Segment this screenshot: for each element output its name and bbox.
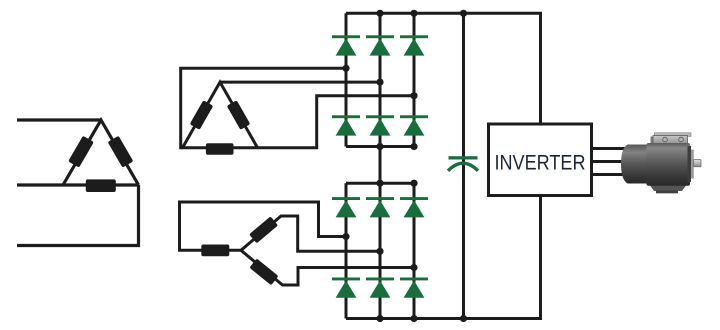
wire inverter to motor phase W xyxy=(592,173,631,176)
winding T2a xyxy=(190,100,214,130)
winding T3b xyxy=(249,216,278,243)
inverter U1 box xyxy=(489,124,592,196)
capacitor C1 flat plate xyxy=(449,156,478,159)
capacitor C1 curved plate xyxy=(448,163,478,171)
wire T2 delta secondary loop to bridge1 legs 1 and 3 xyxy=(181,68,414,147)
motor M1 xyxy=(621,133,701,194)
junction dot bridge1 AC tap leg2 xyxy=(376,79,383,86)
transformer T1 primary delta sides xyxy=(63,120,139,185)
diode D7 xyxy=(332,197,360,217)
diode D5 xyxy=(366,115,394,135)
wire inverter to motor phase U xyxy=(592,147,631,150)
junction dot bridge1 AC tap leg3 xyxy=(410,92,417,99)
diode D11 xyxy=(366,278,394,298)
diode D6 xyxy=(400,115,428,135)
junction dot bridge2 AC tap leg1 xyxy=(342,233,349,240)
capacitor C1 wire xyxy=(462,13,465,318)
bridge2 leg3 wire xyxy=(413,183,416,318)
junction dot bottom bus capacitor xyxy=(460,315,467,322)
bridge2 positive bus xyxy=(346,182,414,185)
diode D4 xyxy=(332,115,360,135)
junction dot bridge1 negative bus leg2 xyxy=(376,143,383,150)
wire series link between bridges xyxy=(379,147,382,184)
bus DC+ top rail to inverter xyxy=(346,13,541,124)
winding T1a xyxy=(68,136,94,168)
wire T3 wye branch B to bridge2 leg 2 xyxy=(241,216,380,251)
bridge1 leg3 wire xyxy=(413,13,416,146)
diode D2 xyxy=(366,35,394,55)
svg-text:INVERTER: INVERTER xyxy=(495,151,586,175)
bridge2 leg1 wire xyxy=(345,183,348,318)
wire T3 wye branch A to bridge2 leg 1 xyxy=(180,202,347,250)
diode D1 xyxy=(332,35,360,55)
junction dot bridge1 AC tap leg1 xyxy=(342,65,349,72)
junction dot bottom bus leg2 xyxy=(376,315,383,322)
junction dot bridge2 AC tap leg3 xyxy=(410,264,417,271)
junction dot bridge2 AC tap leg2 xyxy=(376,248,383,255)
winding T1b xyxy=(108,136,134,168)
bridge2 leg2 wire xyxy=(379,183,382,318)
junction dot bridge1 negative bus leg3 xyxy=(410,143,417,150)
wire inverter to motor phase V xyxy=(592,160,631,163)
junction dot bridge2 positive bus leg2 xyxy=(376,180,383,187)
junction dot bridge2 positive bus leg3 xyxy=(410,180,417,187)
diode D10 xyxy=(332,278,360,298)
bus DC- bottom rail to inverter xyxy=(346,196,541,319)
winding T2c xyxy=(206,143,234,154)
diode D3 xyxy=(400,35,428,55)
winding T2b xyxy=(227,100,251,130)
diode D8 xyxy=(366,197,394,217)
junction dot bottom bus leg3 xyxy=(410,315,417,322)
wire primary feed phase A xyxy=(17,118,101,121)
wire primary feed phase B xyxy=(17,183,139,186)
wire T3 wye branch C to bridge2 leg 3 xyxy=(241,250,414,285)
bridge1 leg1 wire xyxy=(345,13,348,146)
winding T1c xyxy=(86,179,116,192)
junction dot top bus leg2 xyxy=(376,10,383,17)
junction dot top bus capacitor xyxy=(460,10,467,17)
winding T3c xyxy=(249,258,278,285)
bridge1 leg2 wire xyxy=(379,13,382,146)
wire primary feed phase C xyxy=(17,185,139,246)
diode D9 xyxy=(400,197,428,217)
wire T2 apex to bridge1 leg 2 xyxy=(220,81,380,84)
bridge1 negative bus xyxy=(346,145,414,148)
winding T3a xyxy=(201,245,229,257)
junction dot top bus leg3 xyxy=(410,10,417,17)
transformer T2 secondary delta sides xyxy=(183,82,258,148)
diode D12 xyxy=(400,278,428,298)
